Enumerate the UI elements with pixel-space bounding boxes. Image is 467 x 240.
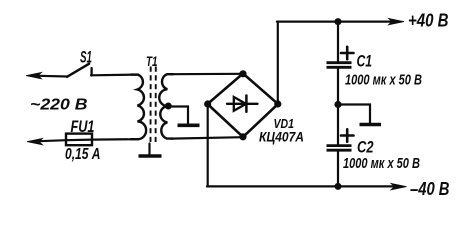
transformer T1 primary winding bbox=[131, 75, 146, 140]
transformer T1 secondary winding bbox=[159, 74, 173, 138]
wire top rail to C1 bbox=[337, 22, 339, 62]
node: bridge right vertex bbox=[274, 100, 281, 107]
capacitor C1 plates bbox=[327, 63, 352, 68]
svg-text:T1: T1 bbox=[146, 53, 158, 69]
transformer T1 core line 2 bbox=[155, 67, 157, 143]
svg-text:C1: C1 bbox=[357, 52, 373, 71]
svg-text:C2: C2 bbox=[357, 138, 374, 157]
wire secondary bottom to bridge bottom vertex bbox=[171, 137, 243, 138]
switch S1 blade bbox=[67, 64, 89, 77]
diode inside VD1: triangle bbox=[234, 97, 246, 111]
wire switch to T1 primary bbox=[91, 73, 138, 76]
svg-text:КЦ407А: КЦ407А bbox=[259, 130, 304, 145]
wire midpoint to ground bbox=[338, 105, 370, 123]
+40V top rail bbox=[277, 20, 393, 22]
arrow -40V bbox=[391, 183, 407, 189]
wire AC line 1 (to mains, top) bbox=[39, 75, 67, 78]
diode inside VD1: cathode bar bbox=[245, 96, 248, 112]
capacitor C2 plates bbox=[327, 146, 352, 151]
ground (transformer core/screen) bbox=[148, 144, 150, 156]
arrow mains line 2 bbox=[27, 138, 43, 144]
diode inside VD1: axis line bbox=[227, 103, 258, 105]
fuse FU1 body bbox=[66, 134, 92, 146]
ground (midpoint) bbox=[360, 123, 382, 127]
-40V bottom rail bbox=[207, 185, 395, 187]
wire bridge left vertex to -rail bbox=[207, 104, 209, 186]
node: secondary center tap bbox=[165, 103, 172, 110]
switch S1 fixed contact bbox=[90, 68, 92, 76]
node: bridge top vertex bbox=[239, 70, 246, 77]
wire bridge right vertex to +rail bbox=[277, 22, 279, 104]
wire AC line 2 (to mains, bottom, through fuse) bbox=[39, 139, 138, 141]
arrow mains line 1 bbox=[26, 72, 42, 78]
capacitor C1 plus sign bbox=[341, 47, 354, 59]
node: bottom rail / C2 junction bbox=[335, 183, 342, 190]
svg-text:1000 мк x 50 В: 1000 мк x 50 В bbox=[345, 72, 422, 89]
wire center tap to ground bbox=[168, 107, 188, 124]
capacitor C2 plus sign bbox=[341, 129, 354, 141]
node: C1/C2 midpoint bbox=[334, 101, 341, 108]
wire C2 to bottom rail bbox=[337, 151, 339, 187]
wire secondary top to bridge top vertex bbox=[171, 73, 243, 76]
node: top rail / C1 junction bbox=[335, 18, 342, 25]
node: bridge left vertex bbox=[204, 100, 211, 107]
transformer T1 core line 1 bbox=[150, 67, 152, 143]
svg-text:S1: S1 bbox=[80, 48, 92, 67]
ground (secondary center tap) bbox=[178, 124, 200, 128]
svg-text:0,15 А: 0,15 А bbox=[65, 146, 101, 163]
svg-text:+40 В: +40 В bbox=[408, 11, 449, 31]
svg-text:FU1: FU1 bbox=[71, 117, 95, 136]
svg-text:~220 В: ~220 В bbox=[30, 97, 88, 114]
wire C1 to midpoint to C2 bbox=[337, 68, 339, 145]
svg-text:1000 мк x 50 В: 1000 мк x 50 В bbox=[343, 155, 420, 172]
node: bridge bottom vertex bbox=[239, 133, 246, 140]
arrow +40V bbox=[389, 18, 405, 24]
svg-text:–40 В: –40 В bbox=[410, 179, 450, 198]
bridge rectifier VD1 diamond bbox=[208, 74, 279, 138]
